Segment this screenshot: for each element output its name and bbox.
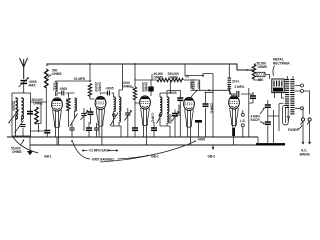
resistor R3	[67, 98, 70, 111]
terminal LS bottom	[241, 124, 244, 127]
svg-text:250,000: 250,000	[177, 105, 181, 116]
svg-text:OHMS: OHMS	[169, 75, 179, 79]
svg-text:·0005: ·0005	[169, 91, 177, 95]
wire: x248.8 column	[248, 88, 250, 137]
wire: bus drop x90	[89, 64, 91, 81]
resistor R6 40,000	[157, 78, 170, 81]
IF transformer 2 coil a	[160, 97, 162, 113]
wire: y73.5 link	[185, 64, 214, 92]
capacitor cluster below V2: cap A	[69, 128, 74, 130]
tube V3	[140, 96, 151, 126]
svg-text:50,000: 50,000	[12, 101, 16, 111]
wire: V1 anode cap line y93	[57, 93, 75, 98]
wire: IFT1 tops	[119, 64, 123, 97]
wire: V2 anode y93 line	[101, 93, 114, 97]
wire: choke column	[228, 65, 230, 95]
coil: IFT1 lower winding	[119, 112, 121, 122]
capacitor: 25MFD cathode	[203, 104, 209, 106]
wire: riser to rectifier area	[246, 69, 248, 71]
svg-text:GB-3: GB-3	[208, 154, 216, 158]
wire: grid junction drop x135	[134, 103, 136, 122]
tube V4	[184, 97, 195, 127]
coil L3 oscillator	[74, 97, 76, 99]
svg-text:OHMS: OHMS	[122, 85, 132, 89]
svg-text:EACH: EACH	[251, 118, 261, 122]
component: smoothing choke box	[283, 105, 289, 125]
capacitor: cathode bypass at 47	[44, 131, 50, 133]
svg-text:500: 500	[258, 78, 263, 82]
transformer T1 winding secondary	[290, 79, 294, 115]
wire: GB-2 leader	[100, 155, 149, 162]
svg-text:FUSES: FUSES	[288, 128, 299, 132]
wire: trimmer to coil box	[23, 84, 25, 93]
wire: R5 to V3	[135, 99, 139, 103]
wire: x205.5 column	[205, 92, 207, 137]
svg-text:OHMS: OHMS	[144, 82, 148, 92]
wire: V3 heaters	[144, 108, 147, 145]
wire: IFT2 bottoms + arm	[157, 113, 171, 138]
svg-text:OHMS: OHMS	[97, 82, 101, 92]
wire: leader to box bottom	[20, 140, 24, 146]
wire: cap to rail	[46, 133, 48, 137]
component: V5 cathode heavy bar	[232, 128, 235, 137]
wire: tap drop x303	[302, 108, 304, 110]
fuse F2	[307, 118, 311, 144]
resistor R5	[133, 87, 136, 100]
terminal tap3	[301, 107, 304, 110]
wire: main HT bus y64	[47, 64, 254, 70]
wire: V2 heaters	[99, 109, 102, 146]
wire: ganged leader left	[72, 140, 91, 159]
svg-text:H.F.C.: H.F.C.	[52, 83, 56, 92]
node: dot 90,81	[89, 80, 91, 82]
wire: winding to riser	[193, 80, 200, 90]
resistor R1 500 ohms	[45, 69, 48, 88]
coil L1	[16, 98, 18, 119]
wire: y81 line	[56, 81, 91, 96]
wire: selector arrow marks	[287, 116, 290, 121]
wire: capC stubs	[96, 123, 98, 137]
tube V1	[52, 98, 63, 128]
node: junction dot bus x90	[89, 63, 91, 65]
capacitor: in box bottom	[20, 125, 25, 127]
component: heavy bus segment	[256, 143, 285, 145]
svg-text:OHMS: OHMS	[12, 150, 22, 154]
svg-text:·0005: ·0005	[189, 81, 193, 89]
terminal: IFT2 switch contact	[159, 114, 162, 117]
wire: rail links	[30, 137, 258, 145]
wire: leader to fuses	[298, 125, 303, 130]
wire: choke box inner	[284, 107, 286, 123]
wire: tap2 to mains line	[304, 91, 310, 114]
wire: ganged leader right	[118, 141, 197, 159]
wire: R4 to V2	[90, 96, 95, 100]
rail A chassis y137	[7, 136, 258, 138]
wire: capB stubs	[88, 122, 90, 137]
capacitor C ·0005 anode	[62, 91, 64, 96]
capacitor cluster below V3: cap D	[132, 128, 138, 130]
wire: L3 bottom + switch arm	[70, 111, 78, 127]
capacitor: diode load cap dark	[177, 98, 183, 100]
wire: V4 top arc	[191, 90, 198, 97]
wire: y80 to winding	[184, 79, 191, 81]
wire: IFT2 tops	[160, 80, 170, 97]
wire: transformer top leads	[287, 76, 293, 79]
svg-text:MAX: MAX	[29, 84, 37, 88]
svg-text:OHMS: OHMS	[154, 75, 164, 79]
wire: capE stubs	[153, 122, 155, 137]
wire: cap a stubs	[249, 92, 253, 103]
svg-text:MAINS: MAINS	[300, 152, 311, 156]
capacitor: grid coupling dark cap left of V2	[88, 112, 94, 114]
tube V5 output	[229, 96, 240, 126]
terminal LS top	[241, 113, 244, 116]
wire: V4 heaters	[188, 110, 191, 146]
capacitor: 4MFD b	[265, 105, 271, 107]
wire: R1 bottom down	[45, 87, 47, 130]
svg-text:·0005: ·0005	[197, 138, 205, 142]
component: black box resistor above V3	[148, 87, 153, 92]
capacitor: 4MFD c	[265, 122, 271, 124]
capacitor: padder on box right	[27, 112, 33, 114]
wire: x213 column lower	[212, 92, 214, 137]
capacitor cluster below V3: cap E	[151, 128, 157, 130]
wire: R3 bottom	[68, 110, 70, 127]
terminal tap2	[301, 90, 304, 93]
svg-text:RECTIFIER: RECTIFIER	[273, 61, 290, 65]
wire: R8 bottom line	[254, 64, 261, 80]
IF transformer 1 coil b	[119, 97, 121, 111]
wire: leader to R5	[131, 87, 134, 89]
node: dot y90.3	[208, 89, 210, 91]
wire: leader to rectifier	[273, 66, 275, 77]
capacitor C ·0005	[108, 91, 110, 96]
metal rectifier block	[272, 79, 284, 93]
wire: x267.8 column	[267, 100, 269, 145]
svg-text:·01 MFD: ·01 MFD	[73, 77, 86, 81]
wire: y94 line	[229, 94, 253, 97]
component: hatched box resistor 500	[257, 72, 265, 76]
wire: leader arrows to 4MFD caps	[260, 108, 265, 124]
switch arm in box	[9, 110, 24, 134]
wire: branch y116	[268, 116, 279, 131]
node: dot at 38.5,131	[38, 130, 40, 132]
wire: screen line y90.3	[191, 89, 230, 91]
component: small winding cluster	[191, 80, 194, 89]
coil box (band switch unit)	[12, 93, 31, 136]
svg-text:20 H.: 20 H.	[232, 80, 240, 84]
wire: bus drop x135	[134, 64, 136, 87]
svg-text:·1 MFD: ·1 MFD	[151, 112, 155, 123]
variable capacitor CV3 (tuning gang 3)	[172, 110, 180, 138]
IF transformer 2 coil b	[167, 97, 169, 113]
wire: AVC line y80	[135, 74, 157, 80]
svg-text:2 MFD.: 2 MFD.	[235, 85, 245, 89]
IF transformer 1 coil a	[114, 97, 116, 111]
wire: GB-1 leader	[13, 137, 38, 153]
svg-text:·0005 GANGED: ·0005 GANGED	[91, 158, 114, 162]
svg-text:OHMS: OHMS	[258, 65, 268, 69]
wire: capD stubs	[134, 122, 136, 137]
wire: V5 top arc	[229, 85, 233, 97]
variable capacitor CV2 (tuning gang 2)	[125, 108, 132, 137]
wire: arrows for MFD EACH	[82, 150, 118, 151]
svg-text:OHMS: OHMS	[52, 72, 62, 76]
svg-text:GB-1: GB-1	[44, 154, 52, 158]
wire: x273.5 column	[273, 110, 275, 143]
svg-text:50,000: 50,000	[168, 114, 172, 124]
node: dot 203,75.8	[202, 75, 204, 77]
resistor R8 50,000 vertical	[252, 65, 255, 80]
fuse F1	[300, 110, 304, 144]
wire: diode cap column	[167, 91, 180, 138]
wire: V1 heaters to rails	[56, 110, 59, 145]
wire: LS stubs	[242, 110, 244, 137]
capacitor: 2MFD	[237, 91, 239, 97]
wire: GB-3 drop	[212, 145, 214, 149]
antenna	[20, 58, 28, 79]
wire: into box top	[279, 103, 284, 116]
capacitor cluster: cap C small	[94, 128, 99, 130]
resistor R2 500,000 ohms grid leak	[35, 107, 38, 124]
resistor R7 250,000	[171, 78, 184, 81]
terminal: IFT1 switch contact	[113, 114, 116, 117]
wire: R2 bottom + parallel line	[30, 102, 47, 131]
wire: capA stubs	[71, 122, 73, 137]
wire: rail link	[30, 130, 47, 132]
capacitor cluster below V2: cap B	[86, 128, 92, 130]
svg-text:·0005: ·0005	[106, 86, 114, 90]
coil: IFT2 lower winding	[167, 113, 169, 123]
node: junction dot bus x135	[134, 63, 136, 65]
terminal tap1	[301, 84, 304, 87]
node: junction dot x247 y70	[246, 69, 248, 71]
wire: IFT1 bottoms + arm	[110, 112, 121, 138]
wire: leader arrow to R1	[48, 75, 52, 78]
choke HFC	[55, 81, 57, 82]
ground symbol	[29, 145, 31, 151]
transformer T1 winding primary	[285, 79, 289, 108]
rail B y145	[30, 144, 285, 146]
svg-text:L.S.: L.S.	[240, 119, 246, 123]
tube V2	[95, 96, 106, 126]
capacitor: aerial trimmer 0005 MAX	[19, 78, 29, 88]
wire: box to rectifier	[265, 75, 270, 80]
component: cathode bar black	[195, 120, 202, 123]
wire: box bottom connections	[16, 116, 24, 136]
capacitor: 4MFD a	[250, 96, 256, 98]
wire: transformer taps	[295, 86, 300, 109]
resistor R4	[88, 84, 91, 97]
wire: mains arrows	[302, 142, 311, 144]
wire: box stubs	[150, 80, 152, 96]
wire: bar stub	[198, 123, 200, 137]
svg-text:·0005: ·0005	[59, 87, 67, 91]
variable capacitor CV1 (tuning gang 1)	[81, 108, 89, 131]
choke 20H	[228, 78, 232, 90]
wire: rectifier bottom leads	[275, 93, 285, 98]
wire: grid cap stubs	[90, 108, 92, 125]
wire: V5 heaters	[233, 108, 236, 145]
coil L2	[22, 98, 24, 119]
